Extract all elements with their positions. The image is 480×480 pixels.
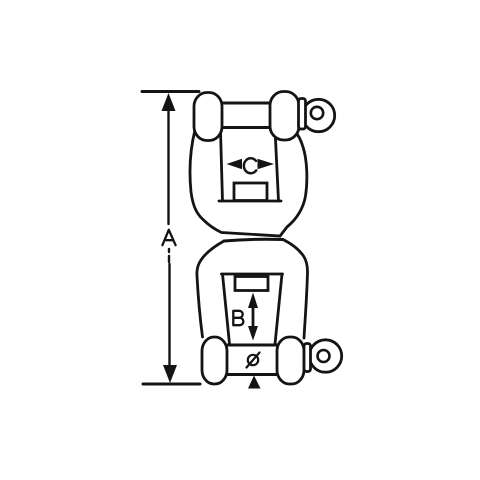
dimension line A: vertical line lower dashes bbox=[168, 249, 170, 262]
top pin left boss bbox=[194, 93, 222, 141]
lower jaw slot left wall bbox=[223, 274, 230, 344]
top pin shaft lines bbox=[215, 103, 280, 128]
pin diameter up arrow bbox=[248, 376, 261, 389]
label C bbox=[244, 158, 256, 173]
B dimension double arrow shaft bbox=[252, 303, 255, 330]
top pin right boss bbox=[270, 92, 299, 141]
bottom pin eye inner circle bbox=[318, 350, 330, 362]
dimension line A: bottom extension tick bbox=[143, 383, 200, 386]
top jaw slot right wall bbox=[275, 129, 279, 201]
top pin eye outer circle bbox=[302, 99, 334, 131]
bottom pin right boss bbox=[277, 337, 304, 384]
dimension line A: vertical line upper segment bbox=[167, 108, 169, 224]
lower jaw body left outline bbox=[197, 241, 224, 337]
top jaw slot left wall bbox=[221, 131, 223, 201]
lower jaw slot top line bbox=[222, 273, 283, 276]
lower jaw slot right wall bbox=[275, 274, 282, 344]
dimension line A: bottom arrowhead bbox=[163, 365, 177, 383]
dimension line A: vertical line lower segment bbox=[168, 264, 170, 368]
swivel joint: lower body top edge bbox=[224, 239, 283, 241]
bottom pin shaft lines bbox=[220, 345, 285, 375]
dimension line A: top extension tick bbox=[142, 90, 199, 93]
top jaw slot bottom line bbox=[219, 200, 281, 203]
bottom pin left boss bbox=[202, 337, 227, 384]
label A bbox=[162, 230, 175, 245]
bottom pin flange bbox=[304, 344, 311, 372]
label B bbox=[233, 311, 243, 325]
top pin eye inner circle bbox=[311, 107, 323, 119]
top pin flange bbox=[299, 99, 306, 130]
dimension line A: top arrowhead bbox=[162, 93, 176, 111]
diameter symbol slash bbox=[247, 353, 260, 368]
C right arrow bbox=[258, 159, 275, 169]
bottom pin eye outer circle bbox=[309, 340, 341, 372]
lower jaw slot rectangle notch bbox=[235, 277, 268, 291]
lower jaw body right outline bbox=[283, 240, 308, 339]
C left arrow bbox=[227, 159, 243, 169]
top jaw body outline bbox=[190, 130, 307, 236]
B arrow bottom head bbox=[248, 326, 258, 341]
diameter symbol circle bbox=[248, 355, 258, 365]
B arrow top head bbox=[248, 293, 258, 309]
top jaw slot rectangle notch bbox=[234, 183, 267, 201]
